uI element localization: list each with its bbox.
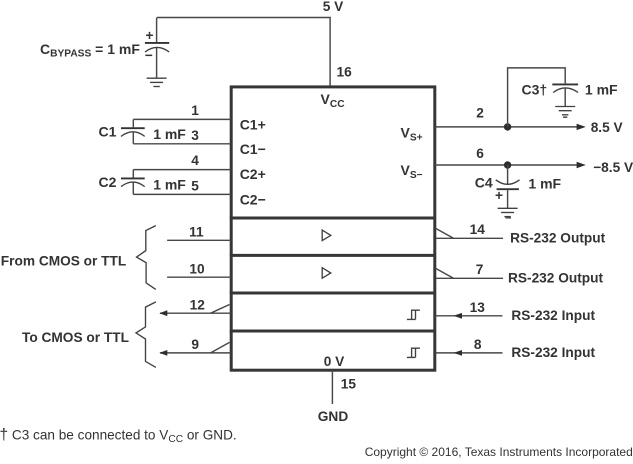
svg-text:3: 3 <box>191 128 199 143</box>
capacitor C3 <box>552 84 578 106</box>
svg-text:RS-232 Input: RS-232 Input <box>511 345 595 360</box>
svg-text:C2: C2 <box>99 174 117 190</box>
arrow pin 9 <box>159 350 167 356</box>
svg-text:−8.5 V: −8.5 V <box>593 160 633 175</box>
arrow pin 8 <box>454 350 463 356</box>
wire pin 5 <box>133 193 231 195</box>
wire pin 3 <box>133 143 231 145</box>
wire pin 15 GND <box>331 370 333 404</box>
hysteresis symbol receiver 1 <box>407 310 420 319</box>
wire pin 6 to -8.5V <box>435 164 581 166</box>
svg-text:9: 9 <box>191 337 199 352</box>
wire pin 9 with diagonal <box>160 342 231 353</box>
capacitor C4 <box>495 165 520 208</box>
svg-text:0 V: 0 V <box>324 354 345 369</box>
wire pin 8 <box>436 352 503 354</box>
hysteresis symbol receiver 2 <box>407 348 420 357</box>
svg-text:13: 13 <box>470 300 486 315</box>
wire 5V supply to pin 16 <box>157 18 330 86</box>
wire pin 13 <box>436 315 503 317</box>
svg-text:† C3 can be connected to VCC o: † C3 can be connected to VCC or GND. <box>0 426 237 445</box>
junction dot pin2 node <box>504 123 511 130</box>
svg-text:To CMOS or TTL: To CMOS or TTL <box>22 330 129 345</box>
IC internal divider 3 <box>230 292 436 295</box>
svg-text:C4: C4 <box>475 175 493 191</box>
svg-text:From CMOS or TTL: From CMOS or TTL <box>1 253 126 268</box>
svg-text:15: 15 <box>341 377 357 392</box>
buffer driver 1 triangle <box>322 230 331 241</box>
svg-text:C1−: C1− <box>240 141 266 157</box>
wire pin 4 <box>133 169 231 171</box>
svg-text:8.5 V: 8.5 V <box>591 120 624 135</box>
svg-text:10: 10 <box>189 262 205 277</box>
svg-text:−: − <box>145 48 153 63</box>
svg-text:1 mF: 1 mF <box>153 126 186 142</box>
svg-text:1 mF: 1 mF <box>153 177 186 193</box>
svg-text:RS-232 Output: RS-232 Output <box>510 231 605 246</box>
wire pin 2 to 8.5V <box>435 126 581 128</box>
svg-text:GND: GND <box>318 409 349 424</box>
svg-text:2: 2 <box>476 105 484 120</box>
brace From CMOS or TTL <box>137 226 156 290</box>
wire pin 10 <box>167 276 231 278</box>
capacitor C1 <box>121 119 145 143</box>
svg-text:5: 5 <box>191 179 199 194</box>
svg-text:1 mF: 1 mF <box>585 82 618 98</box>
wire C3 link <box>508 68 566 127</box>
stray dash above RS-232 output <box>506 217 512 219</box>
ground (C4) <box>498 208 518 216</box>
svg-text:C2+: C2+ <box>240 166 266 182</box>
svg-text:C2−: C2− <box>240 191 266 207</box>
brace To CMOS or TTL <box>136 302 156 368</box>
op-amp U1 IC outline <box>231 87 435 370</box>
svg-text:6: 6 <box>476 146 484 161</box>
svg-text:C3†: C3† <box>522 82 548 98</box>
svg-text:+: + <box>495 188 503 203</box>
wire pin 12 with diagonal <box>160 305 231 314</box>
ground (CBYPASS) <box>147 78 167 86</box>
wire pin 14 with diagonal <box>436 229 503 239</box>
arrow pin 12 <box>159 310 167 316</box>
wire pin 7 with diagonal <box>436 269 503 279</box>
IC internal divider 4 <box>230 330 436 333</box>
wire pin 11 <box>167 239 231 241</box>
svg-text:5 V: 5 V <box>323 0 344 14</box>
svg-text:C1: C1 <box>99 123 117 139</box>
svg-text:8: 8 <box>474 337 482 352</box>
junction dot pin6 node <box>504 161 511 168</box>
svg-text:4: 4 <box>191 153 199 168</box>
IC internal divider 2 <box>230 254 436 257</box>
svg-text:Copyright © 2016, Texas Instru: Copyright © 2016, Texas Instruments Inco… <box>365 445 633 459</box>
svg-text:11: 11 <box>189 225 204 240</box>
IC internal divider 1 <box>230 217 436 220</box>
svg-text:12: 12 <box>190 297 206 312</box>
arrow pin 13 <box>454 313 463 319</box>
svg-text:1 mF: 1 mF <box>528 175 561 191</box>
wire pin 1 <box>133 118 231 120</box>
svg-text:C1+: C1+ <box>240 116 266 132</box>
svg-text:16: 16 <box>337 65 353 80</box>
ground (C3) <box>555 107 575 115</box>
svg-text:RS-232 Input: RS-232 Input <box>511 308 595 323</box>
svg-text:7: 7 <box>476 262 484 277</box>
svg-text:1: 1 <box>191 103 199 118</box>
buffer driver 2 triangle <box>322 268 331 279</box>
arrow 8.5V <box>577 124 586 130</box>
capacitor C2 <box>121 170 145 195</box>
svg-text:+: + <box>146 28 154 43</box>
svg-text:RS-232 Output: RS-232 Output <box>508 271 603 286</box>
stray dash above 8.5V <box>563 116 567 118</box>
capacitor CBYPASS <box>145 18 169 79</box>
arrow -8.5V <box>577 162 586 168</box>
svg-text:14: 14 <box>470 222 486 237</box>
